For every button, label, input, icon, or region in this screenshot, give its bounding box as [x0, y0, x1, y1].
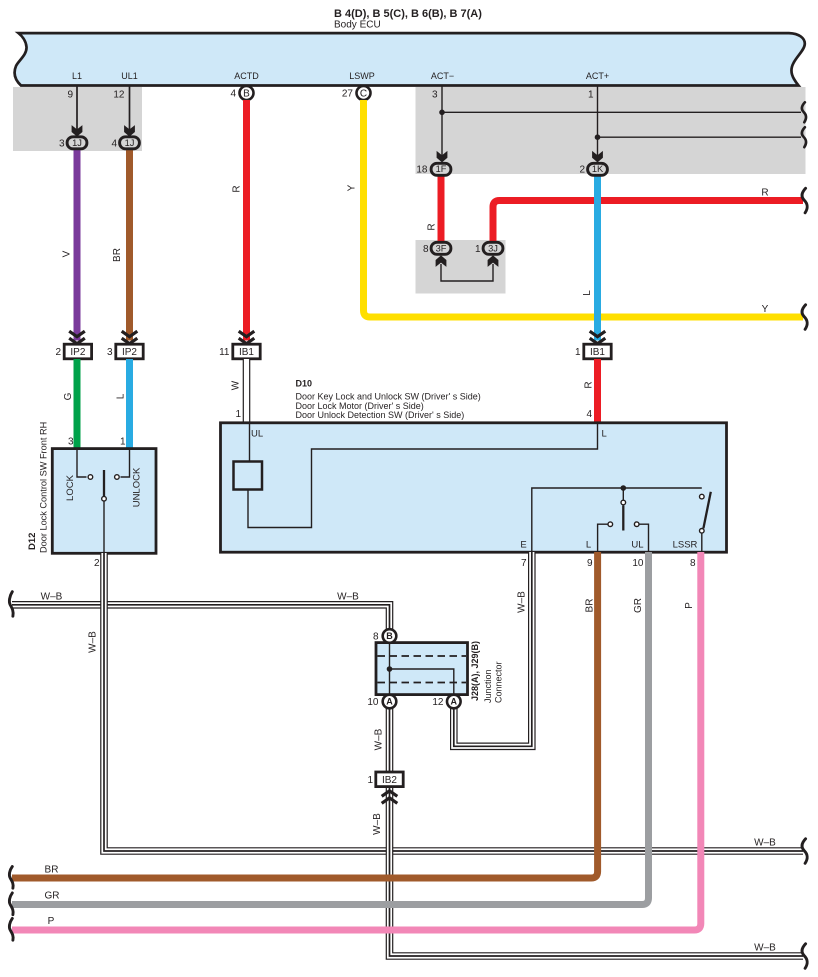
wire ACT+ branch to right [598, 136, 802, 138]
red wire 1F to 3F [438, 175, 445, 242]
svg-text:L1: L1 [72, 71, 82, 81]
red wire R from ACTD down to IB1 [243, 100, 250, 341]
svg-text:ACTD: ACTD [234, 71, 259, 81]
svg-text:L: L [586, 540, 591, 551]
svg-text:W–B: W–B [88, 631, 99, 653]
svg-text:B 4(D), B 5(C), B 6(B), B 7(A): B 4(D), B 5(C), B 6(B), B 7(A) [334, 8, 482, 20]
svg-text:3: 3 [59, 138, 65, 149]
junction connector internal wire to A12 [390, 669, 454, 694]
svg-text:G: G [63, 392, 74, 400]
svg-text:W: W [231, 380, 242, 390]
svg-text:A: A [386, 697, 393, 707]
chevron arrows into IP2 IB1 [69, 331, 605, 344]
svg-text:4: 4 [586, 409, 592, 420]
purple wire V [74, 150, 81, 341]
svg-text:B: B [243, 89, 250, 100]
svg-text:V: V [62, 250, 73, 257]
wire UL1 pin12 to connector 1J [129, 86, 131, 130]
light blue wire L to D12 pin1 [126, 359, 133, 450]
wire ACT- branch to right [442, 111, 801, 113]
svg-text:W–B: W–B [517, 591, 528, 613]
svg-text:1: 1 [235, 409, 241, 420]
svg-text:Y: Y [347, 184, 358, 191]
svg-text:UL1: UL1 [121, 71, 138, 81]
red wire R from IB1 to D10 pin4 [594, 359, 601, 424]
svg-text:12: 12 [113, 89, 125, 100]
D10 description text [296, 379, 481, 421]
white wire W from IB1 to D10 pin1 [243, 359, 251, 424]
svg-text:1: 1 [367, 775, 373, 786]
junction node on E wire [621, 485, 627, 491]
svg-text:D10: D10 [296, 379, 313, 389]
junction connector J28 J29 block [376, 643, 468, 695]
svg-text:8: 8 [423, 244, 429, 255]
D10 internal wires [248, 424, 702, 552]
svg-text:2: 2 [94, 558, 100, 569]
svg-text:1J: 1J [125, 138, 135, 148]
svg-text:R: R [584, 381, 595, 388]
LSSR switch top circle [700, 494, 705, 499]
wire L1 pin9 to connector 1J [76, 86, 78, 130]
D12 internal wire pin1 to UNLOCK contact [121, 450, 130, 477]
svg-text:BR: BR [45, 865, 59, 876]
svg-text:27: 27 [342, 89, 354, 100]
connector oval 1K pin2 [588, 163, 608, 175]
LOCK contact circle [88, 475, 93, 480]
svg-text:4: 4 [230, 89, 236, 100]
svg-text:1J: 1J [72, 138, 82, 148]
brown wire BR [126, 150, 133, 341]
svg-text:W–B: W–B [754, 943, 776, 954]
svg-text:ACT−: ACT− [431, 71, 454, 81]
svg-text:R: R [232, 185, 243, 192]
svg-text:L: L [602, 428, 607, 439]
svg-text:8: 8 [690, 558, 696, 569]
UL side contact circle [634, 522, 639, 527]
svg-text:9: 9 [67, 89, 73, 100]
connector box IB2 pin1 [376, 772, 403, 787]
connector oval 3F pin8 [431, 242, 451, 254]
circled pin A10 [383, 695, 397, 709]
light blue wire L from 1K down to IB1 [594, 175, 601, 341]
D10 bottom pin name labels [520, 540, 697, 551]
component block D12 Door Lock Control SW Front RH [52, 449, 156, 554]
chevron arrow up into IB2 [382, 791, 398, 804]
green wire G to D12 pin3 [74, 359, 81, 450]
band pin name labels [72, 71, 609, 81]
circled pin B at ACTD [240, 86, 254, 100]
pink wire P from D10 pin8 down then left [12, 552, 701, 930]
connector oval 3J pin1 [483, 242, 503, 254]
svg-text:10: 10 [367, 697, 379, 708]
svg-text:3: 3 [107, 347, 113, 358]
svg-text:IB1: IB1 [239, 347, 254, 358]
circled pin A12 [447, 695, 461, 709]
svg-text:IB1: IB1 [590, 347, 605, 358]
svg-text:1K: 1K [592, 164, 604, 174]
connector oval 1F pin18 [431, 163, 451, 175]
connector box IB1 pin1 [584, 344, 611, 359]
UNLOCK contact circle [115, 475, 120, 480]
svg-text:C: C [360, 89, 367, 100]
svg-text:LOCK: LOCK [65, 474, 76, 501]
connector box IP2 pin2 [64, 344, 91, 359]
svg-text:Junction: Junction [483, 669, 493, 703]
svg-text:A: A [451, 697, 458, 707]
svg-text:B: B [386, 631, 393, 641]
detection switch lever [622, 506, 624, 531]
svg-text:3: 3 [432, 90, 438, 101]
junction connector dashed bus lines [378, 655, 467, 657]
W-B wire from D10 pin7 E down left up to junction pin A12 [454, 552, 532, 746]
svg-text:UL: UL [251, 428, 263, 439]
LSSR switch lever [703, 492, 710, 529]
D10 bottom pin numbers [521, 558, 696, 569]
svg-text:2: 2 [579, 164, 585, 175]
svg-text:LSSR: LSSR [673, 540, 698, 551]
W-B wire from D12 pin2 down then right [104, 553, 803, 851]
svg-text:2: 2 [55, 347, 61, 358]
wire ACT+ pin1 to connector 1K [597, 86, 599, 156]
connector box IB1 pin11 [233, 344, 260, 359]
svg-text:IB2: IB2 [382, 775, 397, 786]
junction node on ACT+ wire [595, 134, 601, 140]
svg-text:IP2: IP2 [70, 347, 85, 358]
D12 wire pivot to pin2 [103, 501, 105, 553]
svg-text:D12: D12 [27, 533, 38, 550]
D12 internal wire pin3 to LOCK contact [77, 450, 87, 477]
W-B wire from left tear to junction connector pin B [12, 605, 390, 632]
gray wire GR from D10 pin10 down then left [12, 552, 649, 905]
connector box IP2 pin3 [116, 344, 143, 359]
link wire between 3F and 3J [441, 264, 493, 281]
svg-text:1: 1 [588, 90, 594, 101]
svg-text:1: 1 [120, 437, 126, 448]
svg-text:8: 8 [373, 632, 379, 643]
svg-text:GR: GR [633, 598, 644, 613]
svg-text:Y: Y [762, 304, 769, 315]
connector oval 1J pin3 [67, 137, 87, 149]
svg-text:BR: BR [112, 248, 123, 262]
svg-text:BR: BR [585, 599, 596, 613]
pin numbers below band [67, 89, 594, 101]
red wire 3J up then right [493, 201, 803, 243]
yellow wire Y from LSWP down then right [364, 100, 804, 317]
gray connector shading 3F 3J [416, 240, 506, 294]
svg-text:9: 9 [587, 558, 593, 569]
gray connector shading right [416, 87, 806, 174]
junction connector internal wire B to A10 [389, 644, 391, 694]
junction node [387, 666, 393, 672]
connector oval 1J pin4 [120, 137, 140, 149]
up arrows into 3F and 3J [436, 255, 447, 267]
svg-text:1: 1 [575, 347, 581, 358]
Body ECU block with torn ends [15, 33, 805, 85]
svg-text:Connector: Connector [494, 661, 504, 703]
svg-text:Door Unlock Detection SW (Driv: Door Unlock Detection SW (Driver' s Side… [296, 410, 465, 420]
svg-text:3F: 3F [436, 243, 447, 253]
brown wire BR from D10 pin9 down then left [12, 552, 598, 878]
svg-text:UL: UL [631, 540, 643, 551]
svg-text:J28(A), J29(B): J28(A), J29(B) [470, 641, 480, 701]
wire ACT- pin3 to connector 1F [441, 86, 443, 156]
svg-text:R: R [427, 223, 438, 230]
svg-text:Door Lock Control SW Front RH: Door Lock Control SW Front RH [39, 422, 49, 553]
junction node on ACT- wire [439, 110, 445, 116]
detection switch pivot circle [621, 500, 626, 505]
svg-text:GR: GR [45, 891, 60, 902]
gray connector shading left [13, 87, 142, 151]
svg-text:P: P [48, 916, 55, 927]
circled pin C at LSWP [357, 86, 371, 100]
D12 switch lever [103, 470, 105, 496]
svg-text:11: 11 [219, 347, 230, 358]
svg-text:1: 1 [475, 244, 481, 255]
LSSR bottom circle [700, 529, 705, 534]
component block D10 [221, 423, 727, 552]
svg-text:4: 4 [111, 138, 117, 149]
svg-text:18: 18 [416, 164, 428, 175]
D12 lever pivot circle [102, 496, 107, 501]
svg-text:ACT+: ACT+ [586, 71, 609, 81]
svg-text:W–B: W–B [754, 838, 776, 849]
svg-text:10: 10 [632, 558, 644, 569]
svg-text:L: L [582, 290, 593, 296]
L side contact circle [608, 522, 613, 527]
svg-text:W–B: W–B [41, 592, 63, 603]
svg-text:12: 12 [432, 697, 444, 708]
svg-text:Body ECU: Body ECU [334, 20, 381, 31]
svg-text:1F: 1F [436, 164, 447, 174]
svg-text:R: R [761, 188, 768, 199]
svg-text:3J: 3J [488, 243, 498, 253]
svg-text:W–B: W–B [372, 813, 383, 835]
circled pin B8 [383, 629, 397, 643]
svg-text:LSWP: LSWP [349, 71, 375, 81]
svg-text:3: 3 [68, 437, 74, 448]
door lock motor square [234, 462, 263, 490]
svg-text:W–B: W–B [374, 728, 385, 750]
svg-text:UNLOCK: UNLOCK [132, 467, 143, 507]
svg-text:7: 7 [521, 558, 527, 569]
svg-text:IP2: IP2 [122, 347, 137, 358]
svg-text:L: L [116, 393, 127, 399]
W-B wire junction pin A10 to IB2 [386, 708, 394, 773]
svg-text:W–B: W–B [337, 592, 359, 603]
svg-text:P: P [684, 602, 695, 609]
LSSR wire to pin8 [701, 533, 703, 552]
W-B wire below IB2 down then right [390, 786, 804, 956]
svg-text:E: E [520, 540, 526, 551]
